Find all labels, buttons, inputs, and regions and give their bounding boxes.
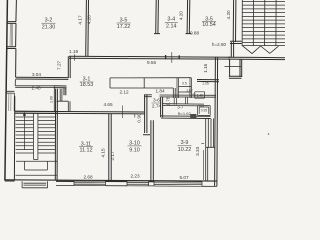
svg-text:9.10: 9.10 xyxy=(129,147,140,153)
wall stairwell left xyxy=(13,96,15,180)
tiny closet digits xyxy=(182,81,209,112)
stairs up arrow xyxy=(23,114,25,151)
svg-text:2.14: 2.14 xyxy=(166,24,177,30)
wall bath cluster south xyxy=(161,116,211,119)
wire closet top stub xyxy=(54,86,66,96)
entrance porch xyxy=(22,181,47,188)
wall stairwell right xyxy=(55,89,57,181)
svg-text:1.40: 1.40 xyxy=(197,93,204,97)
wall entry north (y80) xyxy=(197,80,219,82)
svg-text:18.53: 18.53 xyxy=(80,82,94,88)
wall right outer lower xyxy=(215,58,218,187)
wire left outer wall xyxy=(5,0,8,181)
svg-text:4.65: 4.65 xyxy=(103,102,113,107)
wall room 3-2 south xyxy=(16,77,69,79)
svg-text:2.17: 2.17 xyxy=(110,151,115,161)
svg-text:10.22: 10.22 xyxy=(178,147,192,153)
wall stair south xyxy=(228,57,285,59)
svg-text:3-6: 3-6 xyxy=(153,98,160,104)
svg-text:1.05: 1.05 xyxy=(202,81,209,85)
window 3-10 xyxy=(127,181,149,186)
stairs lower right flight xyxy=(38,117,56,153)
dimension texts rotated xyxy=(49,10,231,161)
svg-text:3-2: 3-2 xyxy=(45,18,53,24)
wall vestibule east xyxy=(240,59,242,77)
stairs direction arrows (V) xyxy=(242,46,278,54)
svg-text:h=2.80: h=2.80 xyxy=(212,42,227,47)
wall corridor north (y57) xyxy=(69,56,231,59)
svg-text:4.17: 4.17 xyxy=(78,15,83,25)
wall 3-7 north xyxy=(163,104,204,106)
wall between 3-5 and 3-4 xyxy=(154,0,160,34)
svg-text:1.16: 1.16 xyxy=(203,63,208,73)
svg-text:11.12: 11.12 xyxy=(79,148,92,154)
svg-text:1.84: 1.84 xyxy=(155,89,165,94)
svg-text:21.30: 21.30 xyxy=(42,25,56,31)
label room 3-11 xyxy=(79,141,93,153)
wall bottom outer xyxy=(5,180,217,182)
wire left inner wall segment xyxy=(15,49,17,78)
svg-text:2.29: 2.29 xyxy=(189,92,195,96)
wall vestibule south xyxy=(229,59,242,78)
wall between 3-2 and 3-5 xyxy=(86,0,89,56)
wall stairwell top xyxy=(15,111,57,113)
wall bath cluster north (y95) xyxy=(144,95,216,97)
svg-text:3-11: 3-11 xyxy=(81,141,91,147)
svg-text:2.23: 2.23 xyxy=(130,174,140,179)
paper background xyxy=(0,0,285,192)
svg-text:2.40: 2.40 xyxy=(31,85,41,90)
label room 3-2 xyxy=(42,18,56,31)
svg-text:5.07: 5.07 xyxy=(179,175,189,180)
stairs divider xyxy=(34,114,38,160)
closet box 1.40 xyxy=(195,92,205,98)
wall corridor south (y111) xyxy=(15,111,145,114)
stairs upper flight hatch xyxy=(242,0,285,46)
wall right of 3-5b (stair side) xyxy=(233,0,236,42)
tick wall y57 jambs xyxy=(165,55,167,59)
wall small closet mid xyxy=(174,98,176,105)
label room 3-5b xyxy=(202,16,216,28)
label room 3-5 xyxy=(117,18,131,31)
stairs landing lines xyxy=(16,161,58,175)
door dark jamb xyxy=(190,114,196,118)
svg-text:3.33: 3.33 xyxy=(195,146,200,156)
wire vestibule shelf xyxy=(225,65,242,67)
svg-text:9.56: 9.56 xyxy=(147,60,157,65)
svg-text:3-7: 3-7 xyxy=(177,105,184,110)
stairs lower left flight xyxy=(16,117,34,153)
speck xyxy=(268,133,270,135)
wire dim line 3.33 xyxy=(201,144,204,180)
svg-text:2.12: 2.12 xyxy=(119,89,129,94)
svg-text:0.5: 0.5 xyxy=(182,81,187,85)
svg-text:0.95: 0.95 xyxy=(201,108,208,112)
svg-text:B=1.62: B=1.62 xyxy=(178,111,192,116)
label room 3-7 xyxy=(177,105,191,116)
svg-text:3-9: 3-9 xyxy=(181,140,189,146)
label room 3-10 xyxy=(128,141,142,154)
wall 3-6 east xyxy=(161,97,163,118)
svg-text:3.04: 3.04 xyxy=(32,72,42,77)
svg-text:7.27: 7.27 xyxy=(57,60,62,70)
svg-text:2.74: 2.74 xyxy=(152,103,162,109)
wall 3-11/3-10 xyxy=(109,114,111,181)
svg-text:2.68: 2.68 xyxy=(83,174,93,179)
svg-text:10.54: 10.54 xyxy=(202,22,216,28)
node balcony top-left xyxy=(7,0,16,23)
wall corridor north jog (7.27) xyxy=(68,56,70,78)
label room 3-1 xyxy=(80,77,94,89)
closet mini-boxes xyxy=(177,78,191,98)
label room 3-9 xyxy=(178,140,192,153)
window kitchen xyxy=(154,181,202,186)
bottom wall second line segments xyxy=(56,185,217,186)
flue block kitchen NE xyxy=(206,119,216,148)
wall kitchen SE pier xyxy=(206,147,208,181)
tick corridor dim xyxy=(122,106,124,119)
label room 3-6 xyxy=(152,98,162,110)
dimension texts horizontal xyxy=(31,31,199,180)
svg-text:4.15: 4.15 xyxy=(101,148,106,158)
window left lower xyxy=(6,91,15,111)
toilet box xyxy=(198,106,211,116)
closet 2.40 xyxy=(15,79,54,111)
svg-text:0.88: 0.88 xyxy=(190,31,200,36)
svg-text:4.20: 4.20 xyxy=(179,11,184,21)
svg-text:17.22: 17.22 xyxy=(117,24,131,30)
door 0.90 jamb xyxy=(134,114,136,118)
wall stair lobby west xyxy=(230,41,242,57)
svg-text:3-4: 3-4 xyxy=(167,17,175,23)
wall kitchen west xyxy=(151,120,153,180)
wall between 3-4 and 3-5b xyxy=(186,0,192,34)
svg-text:4.20: 4.20 xyxy=(87,15,92,25)
svg-text:1.78: 1.78 xyxy=(165,96,170,106)
label room 3-4 xyxy=(165,17,178,30)
window 3-11 xyxy=(74,181,106,186)
svg-text:4.20: 4.20 xyxy=(226,10,231,20)
svg-text:3-5: 3-5 xyxy=(120,18,128,24)
svg-text:1.19: 1.19 xyxy=(69,49,79,54)
wall small closet mid2 xyxy=(186,97,188,104)
svg-text:1.60: 1.60 xyxy=(49,96,53,103)
closet 2.12/1.84 rect xyxy=(110,78,191,98)
svg-text:0.90: 0.90 xyxy=(137,113,142,123)
node window left upper xyxy=(7,23,16,48)
niche corridor to stair xyxy=(57,89,71,112)
tick dim 1.19 xyxy=(74,54,76,60)
wall bath cluster west xyxy=(143,95,150,135)
